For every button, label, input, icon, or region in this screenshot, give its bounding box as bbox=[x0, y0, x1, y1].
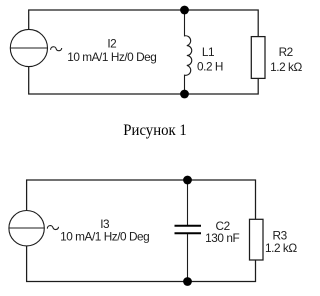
svg-text:10 mA/1 Hz/0 Deg: 10 mA/1 Hz/0 Deg bbox=[60, 229, 149, 243]
resistor R2 body bbox=[251, 37, 265, 79]
wire bottom rail of circuit 1 (source bottom to resistor bottom) bbox=[29, 67, 259, 94]
AC tilde symbol of I2 bbox=[51, 47, 62, 51]
svg-text:1.2 kΩ: 1.2 kΩ bbox=[270, 60, 302, 74]
capacitor C2 bottom plate bbox=[175, 232, 202, 234]
current source I3 diameter line bbox=[9, 227, 44, 229]
current source I2 diameter line bbox=[10, 47, 47, 49]
svg-text:L1: L1 bbox=[202, 45, 214, 59]
svg-text:130 nF: 130 nF bbox=[205, 231, 239, 245]
node junction dot bottom of C2 bbox=[183, 277, 192, 286]
svg-text:1.2 kΩ: 1.2 kΩ bbox=[265, 241, 297, 255]
svg-text:R2: R2 bbox=[279, 45, 293, 59]
inductor L1 with leads bbox=[185, 10, 192, 94]
current source I2 bbox=[10, 29, 47, 66]
capacitor C2 top plate bbox=[175, 225, 202, 227]
AC tilde symbol of I3 bbox=[47, 226, 58, 230]
svg-text:I2: I2 bbox=[107, 36, 116, 50]
node junction dot top of L1 bbox=[180, 6, 189, 15]
wire bottom rail of circuit 2 (source bottom to resistor bottom) bbox=[27, 246, 256, 282]
node junction dot top of C2 bbox=[183, 176, 192, 185]
wire top rail of circuit 1 (source top to resistor top) bbox=[29, 10, 259, 37]
capacitor C2 top lead bbox=[187, 180, 189, 225]
node junction dot bottom of L1 bbox=[180, 90, 189, 99]
resistor R3 body bbox=[250, 219, 264, 260]
svg-text:10 mA/1 Hz/0 Deg: 10 mA/1 Hz/0 Deg bbox=[67, 50, 156, 64]
current source I3 bbox=[9, 211, 44, 246]
wire top rail of circuit 2 (source top to resistor top) bbox=[27, 180, 256, 219]
capacitor C2 bottom lead bbox=[187, 234, 189, 282]
svg-text:Рисунок 1: Рисунок 1 bbox=[123, 122, 187, 139]
svg-text:0.2 H: 0.2 H bbox=[197, 59, 223, 73]
